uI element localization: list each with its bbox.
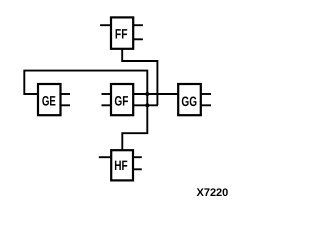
pin: HF left input — [99, 156, 111, 158]
pin: GF left input 1 — [102, 93, 111, 95]
pin: FF right output 2 — [134, 38, 143, 40]
pin: HF right output 2 — [134, 168, 142, 170]
pin: GE right output 2 — [61, 104, 70, 106]
block GF — [111, 84, 133, 115]
svg-text:X7220: X7220 — [196, 187, 228, 199]
pin: FF right output 1 — [134, 24, 143, 26]
pin: GE right output 1 — [61, 93, 70, 95]
junction dot at row2 bus — [145, 103, 149, 107]
pin: FF left input — [100, 24, 110, 26]
svg-text:GF: GF — [114, 94, 128, 109]
wire: GF output row2 to FF jog — [134, 104, 159, 106]
wire net A: GE input up-over to vertical bus down to HF top pin — [24, 71, 147, 150]
pin: HF right output 1 — [134, 156, 142, 158]
svg-text:FF: FF — [115, 26, 128, 41]
pin: GF left input 2 — [102, 104, 111, 106]
junction dot at row1 bus — [145, 92, 149, 96]
block GE — [38, 84, 61, 115]
wire: GF output row1 to GG input — [134, 93, 178, 95]
svg-text:GG: GG — [181, 94, 197, 109]
block FF — [111, 17, 133, 48]
svg-text:GE: GE — [42, 94, 56, 109]
pin: GG right output 1 — [201, 93, 211, 95]
block HF — [111, 150, 133, 180]
pin: GG right output 2 — [201, 104, 211, 106]
block GG — [178, 84, 201, 115]
svg-text:HF: HF — [114, 158, 127, 173]
wire: FF bottom pin jog down to GF output row 2 — [122, 49, 157, 105]
